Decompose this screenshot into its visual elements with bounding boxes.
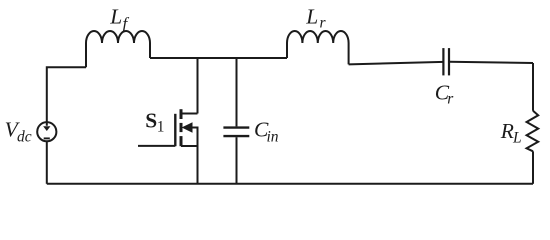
wire rail (Lr to Cr) <box>349 62 444 65</box>
bottom lead <box>236 137 238 184</box>
drain horizontal <box>181 113 198 115</box>
source wire down <box>197 146 199 184</box>
svg-text:r: r <box>447 90 454 107</box>
body arrow <box>183 123 192 132</box>
bottom plate <box>223 135 249 137</box>
gate wire <box>138 145 175 147</box>
circle <box>37 122 56 141</box>
wire left vertical + top-left corner <box>47 67 86 126</box>
resistor RL <box>527 111 539 152</box>
svg-text:S: S <box>145 109 157 133</box>
wire rail (Cr to right corner) <box>449 62 533 63</box>
top lead <box>236 58 238 126</box>
wire left vertical bottom <box>46 141 48 184</box>
svg-text:L: L <box>305 5 318 29</box>
inductor Lf <box>86 31 150 67</box>
voltage source Vdc <box>37 122 56 141</box>
capacitor Cin <box>223 58 249 184</box>
transistor S1 drain wire <box>197 58 199 114</box>
gate bar <box>174 114 176 146</box>
svg-text:dc: dc <box>17 129 32 146</box>
svg-text:L: L <box>512 129 522 146</box>
svg-text:in: in <box>267 128 279 145</box>
top plate <box>223 126 249 128</box>
minus bar <box>44 137 50 139</box>
svg-text:r: r <box>320 15 327 32</box>
right plate <box>448 48 450 75</box>
plus terminal arrow <box>43 126 50 131</box>
channel bottom segment <box>180 136 183 146</box>
left plate <box>442 48 444 75</box>
channel middle segment <box>180 123 183 132</box>
body wire <box>191 128 198 147</box>
capacitor Cr <box>443 48 449 75</box>
source horizontal <box>181 145 198 147</box>
wire right vertical top <box>532 63 534 111</box>
wire bottom rail <box>47 183 533 185</box>
wire right vertical bottom <box>532 151 534 184</box>
svg-text:L: L <box>109 4 122 28</box>
transistor S1 <box>138 109 198 184</box>
svg-text:1: 1 <box>157 119 165 136</box>
wire top rail (Lf to Lr) <box>150 57 287 59</box>
svg-text:R: R <box>500 119 514 143</box>
channel top segment <box>180 109 183 119</box>
inductor Lr <box>287 31 349 64</box>
svg-text:f: f <box>123 14 130 33</box>
